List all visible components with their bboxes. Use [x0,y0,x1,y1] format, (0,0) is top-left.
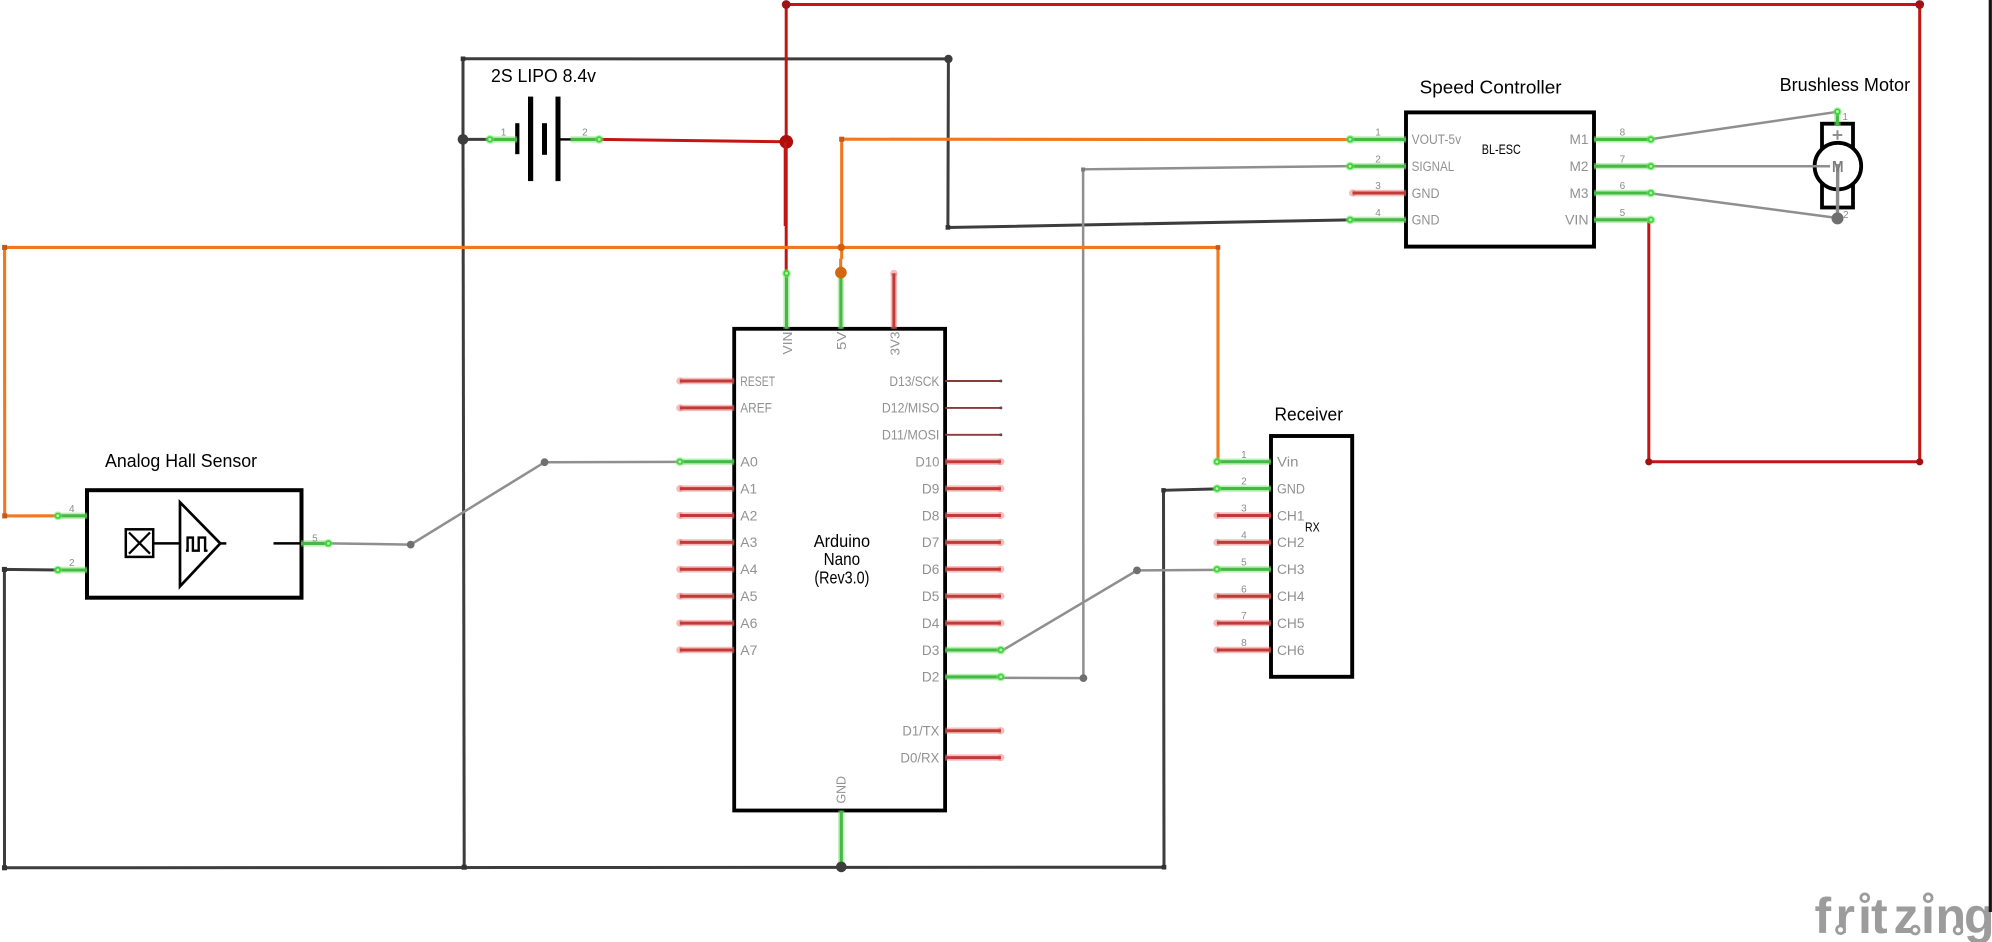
svg-text:Receiver: Receiver [1275,404,1344,424]
svg-text:2: 2 [582,127,588,138]
svg-text:D8: D8 [922,508,940,523]
svg-text:AREF: AREF [740,401,772,416]
svg-text:M2: M2 [1570,159,1589,174]
svg-text:Brushless Motor: Brushless Motor [1780,75,1911,95]
svg-text:D6: D6 [922,562,940,577]
svg-text:D3: D3 [922,643,940,658]
svg-text:D11/MOSI: D11/MOSI [882,428,940,443]
svg-text:A3: A3 [740,535,757,550]
svg-text:VIN: VIN [780,332,795,355]
svg-text:D5: D5 [922,589,940,604]
svg-text:GND: GND [1277,481,1305,496]
svg-text:GND: GND [1412,186,1440,201]
svg-text:VIN: VIN [1565,213,1589,228]
svg-text:D0/RX: D0/RX [900,750,939,765]
svg-text:VOUT-5v: VOUT-5v [1412,132,1462,147]
svg-text:1: 1 [1241,450,1247,461]
svg-text:D1/TX: D1/TX [902,724,939,739]
svg-text:CH4: CH4 [1277,589,1305,604]
svg-text:3: 3 [1375,181,1381,192]
svg-text:CH5: CH5 [1277,616,1305,631]
svg-text:A5: A5 [740,589,757,604]
svg-text:6: 6 [1241,584,1247,595]
svg-text:7: 7 [1241,611,1247,622]
svg-text:5: 5 [1620,208,1626,219]
svg-text:5V: 5V [834,331,849,350]
svg-text:M: M [1832,159,1844,176]
svg-text:A1: A1 [740,481,757,496]
svg-text:2S LIPO 8.4v: 2S LIPO 8.4v [491,66,596,86]
svg-text:(Rev3.0): (Rev3.0) [814,567,869,587]
svg-text:2: 2 [1241,477,1247,488]
svg-text:RESET: RESET [740,374,775,389]
svg-text:8: 8 [1241,638,1247,649]
svg-text:D4: D4 [922,616,940,631]
svg-text:SIGNAL: SIGNAL [1412,159,1455,174]
svg-text:D7: D7 [922,535,940,550]
svg-text:4: 4 [69,504,75,515]
svg-text:4: 4 [1375,208,1381,219]
svg-text:M1: M1 [1570,132,1589,147]
svg-text:D10: D10 [915,455,939,470]
svg-text:A7: A7 [740,643,757,658]
svg-text:3V3: 3V3 [887,332,902,356]
svg-text:3: 3 [1241,504,1247,515]
svg-text:CH3: CH3 [1277,562,1305,577]
svg-text:CH2: CH2 [1277,535,1305,550]
svg-text:8: 8 [1620,128,1626,139]
svg-text:1: 1 [501,127,507,138]
svg-text:GND: GND [834,776,849,804]
svg-text:4: 4 [1241,531,1247,542]
svg-text:7: 7 [1620,154,1626,165]
svg-text:2: 2 [1843,210,1849,221]
svg-text:2: 2 [1375,154,1381,165]
svg-text:Speed Controller: Speed Controller [1420,78,1562,98]
svg-text:Nano: Nano [824,549,861,569]
svg-text:A0: A0 [740,455,758,470]
svg-text:D13/SCK: D13/SCK [889,374,939,389]
svg-text:A2: A2 [740,508,757,523]
svg-text:GND: GND [1412,213,1440,228]
svg-text:D12/MISO: D12/MISO [882,401,940,416]
svg-text:1: 1 [1375,128,1381,139]
svg-text:CH6: CH6 [1277,643,1305,658]
svg-text:Vin: Vin [1277,455,1299,470]
svg-text:CH1: CH1 [1277,508,1305,523]
svg-text:5: 5 [1241,557,1247,568]
svg-text:A6: A6 [740,616,757,631]
svg-text:BL-ESC: BL-ESC [1482,141,1521,157]
svg-text:M3: M3 [1570,186,1589,201]
svg-text:A4: A4 [740,562,758,577]
svg-text:Arduino: Arduino [814,531,870,551]
svg-text:5: 5 [312,533,318,544]
svg-text:D2: D2 [922,670,940,685]
svg-text:1: 1 [1842,112,1848,123]
svg-text:Analog Hall Sensor: Analog Hall Sensor [105,451,257,471]
svg-text:6: 6 [1620,181,1626,192]
svg-text:RX: RX [1305,519,1320,534]
svg-text:D9: D9 [922,481,940,496]
svg-text:2: 2 [69,558,75,569]
